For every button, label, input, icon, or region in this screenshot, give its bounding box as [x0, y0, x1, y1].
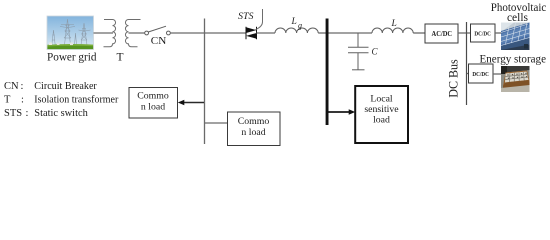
- svg-text:n load: n load: [141, 102, 165, 113]
- svg-text:Commo: Commo: [238, 116, 270, 127]
- label Lg: [291, 17, 303, 30]
- svg-text:Energy storage: Energy storage: [480, 54, 547, 66]
- arrow to local sensitive load: [329, 109, 356, 114]
- svg-text:Commo: Commo: [137, 91, 169, 102]
- svg-text::: :: [21, 95, 24, 106]
- svg-text:CN: CN: [4, 81, 19, 92]
- capacitor C: [348, 33, 369, 70]
- transformer T primary winding: [104, 20, 116, 47]
- svg-text:Static switch: Static switch: [34, 108, 88, 119]
- wire breaker to STS: [170, 32, 246, 34]
- DC/DC converter 2: [469, 64, 494, 83]
- legend line 1: CN: [4, 81, 97, 92]
- static switch STS (antiparallel thyristors): [246, 9, 263, 39]
- photovoltaic cells photo: [501, 23, 530, 51]
- junction vertical line to loads: [204, 19, 206, 145]
- wire DC bus to DC/DC 2: [467, 73, 469, 75]
- label Photovoltaic cells: [491, 2, 547, 24]
- DC bus line: [466, 22, 468, 105]
- AC bus bar: [326, 19, 329, 126]
- svg-text:Isolation transformer: Isolation transformer: [34, 95, 118, 106]
- svg-text:cells: cells: [507, 12, 529, 24]
- svg-text:AC/DC: AC/DC: [432, 30, 453, 38]
- wire bus to inductor L: [329, 32, 373, 34]
- wire to common load 2: [204, 122, 228, 124]
- svg-text:T: T: [4, 95, 11, 106]
- legend line 2: T: [4, 95, 119, 106]
- svg-text:L: L: [291, 17, 297, 27]
- wire DC/DC 1 to photovoltaic cells: [495, 32, 501, 34]
- local sensitive load box: [355, 86, 408, 143]
- wire transformer to breaker: [129, 32, 145, 34]
- wire grid to transformer: [94, 32, 114, 34]
- AC/DC converter: [425, 24, 458, 43]
- svg-text:STS: STS: [238, 12, 254, 22]
- common load box 1: [129, 88, 178, 119]
- wire DC/DC 2 to energy storage: [493, 73, 501, 75]
- svg-text::: :: [26, 108, 29, 119]
- svg-text:C: C: [372, 47, 379, 57]
- svg-text:Local: Local: [370, 94, 393, 105]
- inductor L: [372, 28, 413, 33]
- energy storage photo: [501, 66, 530, 92]
- DC/DC converter 1: [471, 24, 496, 42]
- svg-text:CN: CN: [151, 36, 167, 47]
- svg-text:DC/DC: DC/DC: [474, 31, 491, 38]
- svg-text:L: L: [391, 19, 397, 29]
- svg-text:DC/DC: DC/DC: [472, 71, 489, 78]
- wire DC bus to DC/DC 1: [467, 32, 471, 34]
- svg-text:STS: STS: [4, 108, 22, 119]
- wire L to AC/DC: [413, 32, 425, 34]
- arrow to common load 1: [178, 100, 204, 105]
- wire Lg to AC bus: [318, 32, 326, 34]
- wire AC/DC to DC bus: [458, 32, 467, 34]
- transformer T secondary winding: [125, 20, 140, 47]
- svg-text::: :: [21, 81, 24, 92]
- circuit breaker CN: [145, 26, 171, 35]
- svg-text:n load: n load: [241, 127, 265, 138]
- svg-text:DC Bus: DC Bus: [445, 59, 460, 98]
- legend line 3: STS: [4, 108, 89, 119]
- svg-text:T: T: [117, 52, 124, 64]
- svg-text:Circuit Breaker: Circuit Breaker: [34, 81, 97, 92]
- svg-text:g: g: [298, 21, 302, 30]
- wire STS to Lg: [257, 32, 276, 34]
- inductor Lg: [275, 28, 318, 33]
- common load box 2: [228, 112, 281, 146]
- svg-text:sensitive: sensitive: [364, 104, 399, 115]
- svg-text:load: load: [373, 115, 390, 126]
- power grid photo: [47, 16, 94, 50]
- svg-text:Power grid: Power grid: [47, 52, 97, 64]
